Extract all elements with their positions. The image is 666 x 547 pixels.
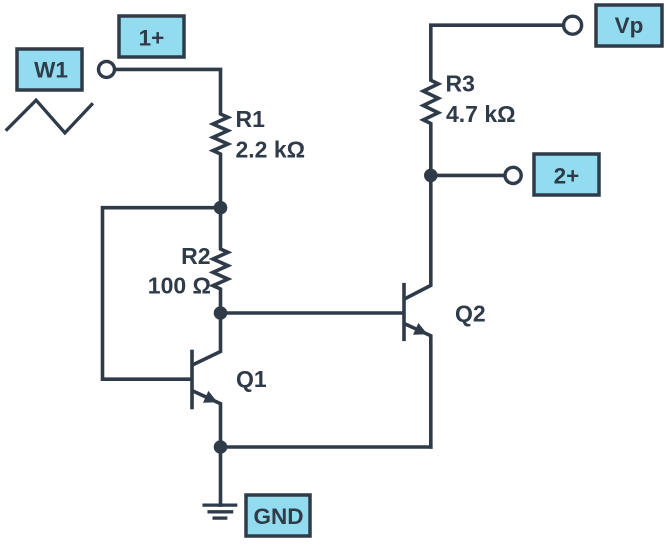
svg-text:2+: 2+ — [554, 164, 580, 189]
svg-text:R3: R3 — [446, 71, 475, 97]
svg-text:Vp: Vp — [615, 13, 644, 38]
svg-text:Q2: Q2 — [455, 301, 486, 327]
svg-text:R1: R1 — [236, 106, 266, 132]
svg-text:W1: W1 — [34, 58, 68, 83]
svg-text:GND: GND — [254, 504, 304, 529]
svg-text:100 Ω: 100 Ω — [148, 273, 211, 299]
svg-text:R2: R2 — [181, 243, 210, 269]
svg-text:4.7 kΩ: 4.7 kΩ — [446, 101, 516, 127]
svg-text:2.2 kΩ: 2.2 kΩ — [236, 137, 306, 163]
svg-text:1+: 1+ — [139, 26, 165, 51]
svg-text:Q1: Q1 — [236, 366, 267, 392]
